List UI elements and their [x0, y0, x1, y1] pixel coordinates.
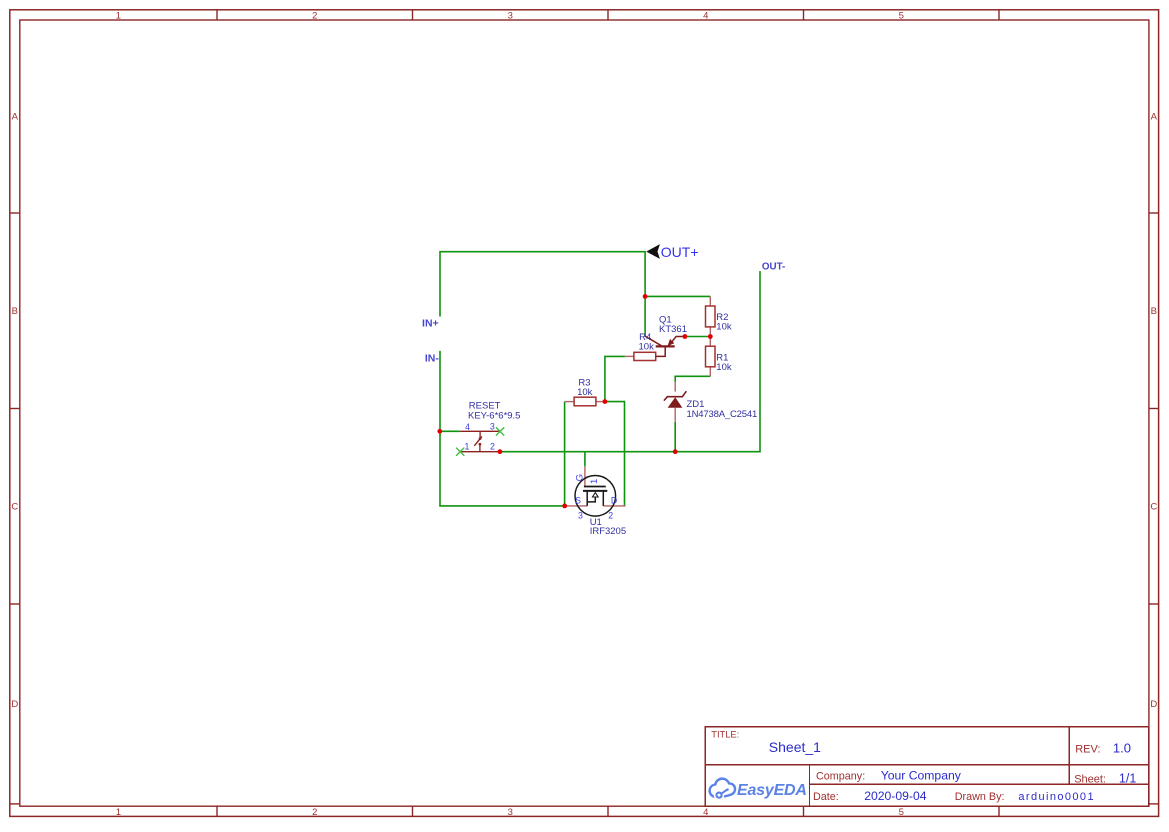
- svg-text:TITLE:: TITLE:: [711, 730, 739, 740]
- svg-text:5: 5: [899, 11, 904, 22]
- svg-text:B: B: [1151, 306, 1157, 317]
- svg-text:4: 4: [465, 422, 470, 432]
- svg-text:B: B: [12, 306, 18, 317]
- svg-text:1: 1: [465, 441, 470, 451]
- svg-text:Date:: Date:: [813, 791, 839, 803]
- svg-text:10k: 10k: [639, 341, 655, 352]
- svg-text:10k: 10k: [577, 387, 593, 398]
- svg-text:REV:: REV:: [1075, 744, 1100, 756]
- svg-text:Sheet_1: Sheet_1: [769, 739, 821, 755]
- svg-text:3: 3: [508, 11, 513, 22]
- svg-text:KT361: KT361: [659, 324, 687, 335]
- svg-text:D: D: [1150, 699, 1157, 710]
- svg-text:C: C: [11, 501, 18, 512]
- svg-text:5: 5: [899, 807, 904, 818]
- svg-text:4: 4: [703, 11, 708, 22]
- svg-text:OUT+: OUT+: [661, 244, 699, 260]
- svg-text:C: C: [1150, 501, 1157, 512]
- svg-text:1/1: 1/1: [1119, 771, 1136, 785]
- svg-text:3: 3: [508, 807, 513, 818]
- svg-text:2: 2: [608, 511, 613, 521]
- svg-text:1: 1: [116, 11, 121, 22]
- svg-text:D: D: [11, 699, 18, 710]
- svg-text:A: A: [1151, 112, 1158, 123]
- svg-text:4: 4: [703, 807, 708, 818]
- svg-text:Company:: Company:: [816, 771, 865, 783]
- svg-text:1.0: 1.0: [1113, 741, 1131, 756]
- svg-text:2: 2: [490, 441, 495, 451]
- svg-text:10k: 10k: [716, 362, 732, 373]
- svg-text:IN-: IN-: [425, 353, 440, 365]
- svg-text:Your Company: Your Company: [881, 769, 962, 783]
- svg-text:EasyEDA: EasyEDA: [737, 782, 807, 799]
- svg-text:2: 2: [312, 11, 317, 22]
- svg-text:IN+: IN+: [422, 318, 439, 330]
- svg-text:Sheet:: Sheet:: [1074, 773, 1106, 785]
- svg-text:1: 1: [116, 807, 121, 818]
- svg-text:Drawn By:: Drawn By:: [955, 791, 1005, 803]
- svg-text:D: D: [611, 495, 617, 505]
- svg-text:2: 2: [312, 807, 317, 818]
- svg-text:3: 3: [490, 422, 495, 432]
- svg-text:10k: 10k: [716, 321, 732, 332]
- svg-text:S: S: [575, 495, 581, 505]
- svg-text:A: A: [12, 112, 19, 123]
- svg-text:arduino0001: arduino0001: [1018, 791, 1095, 803]
- svg-text:1N4738A_C2541: 1N4738A_C2541: [687, 409, 758, 420]
- svg-text:OUT-: OUT-: [762, 261, 785, 272]
- svg-text:2020-09-04: 2020-09-04: [864, 789, 927, 803]
- svg-text:G: G: [575, 474, 586, 481]
- svg-text:3: 3: [578, 511, 583, 521]
- svg-text:KEY-6*6*9.5: KEY-6*6*9.5: [468, 410, 520, 421]
- svg-text:IRF3205: IRF3205: [590, 526, 626, 537]
- svg-text:1: 1: [589, 479, 600, 484]
